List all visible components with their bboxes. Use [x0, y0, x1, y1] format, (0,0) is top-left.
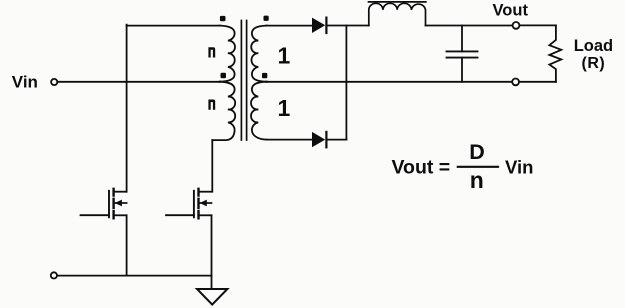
resistor Load (R) [549, 25, 561, 81]
transistor Q2 source line [200, 214, 212, 216]
transistor Q1 channel [112, 189, 114, 219]
capacitor C1 bottom lead [461, 58, 463, 82]
wire output bottom rail (secondary center tap to load) [266, 81, 556, 83]
terminal Vin- [51, 272, 57, 278]
polarity dot primary center [221, 73, 227, 78]
wire top rail left [127, 25, 221, 27]
ground symbol [197, 289, 227, 305]
polarity dot secondary top [264, 16, 269, 21]
transformer T1 secondary winding upper (1) [251, 26, 267, 82]
transistor Q1 drain bend [114, 191, 127, 193]
wire secondary top to D1 [266, 25, 312, 27]
svg-text:n: n [470, 167, 484, 193]
svg-text:1: 1 [278, 95, 291, 121]
polarity dot primary top [220, 16, 226, 21]
label n upper [208, 47, 215, 57]
label n lower [208, 100, 215, 110]
wire bottom rail left [58, 275, 212, 277]
svg-text:Load: Load [574, 37, 613, 55]
transistor Q2 drain bend [198, 191, 211, 193]
transistor Q2 body line [200, 202, 212, 204]
wire D2 cathode to junction [327, 139, 346, 141]
transformer T1 secondary winding lower (1) [251, 82, 267, 140]
transformer T1 primary winding upper (n) [220, 26, 235, 82]
wire left vertical (Q1 drain to top rail) [126, 25, 128, 192]
transistor Q1 gate lead [81, 214, 110, 216]
polarity dot secondary center [262, 73, 267, 78]
diode D1 [312, 18, 325, 33]
terminal Vout- [512, 79, 519, 86]
wire Vout terminal to load [520, 24, 556, 26]
transistor Q2 gate bar [193, 191, 195, 218]
capacitor C1 plates [447, 51, 478, 57]
wire Q1 source to bottom rail [126, 215, 128, 275]
transistor Q2 gate lead [166, 214, 194, 216]
svg-text:(R): (R) [582, 55, 606, 72]
wire inductor to Vout terminal [426, 25, 512, 27]
transformer T1 primary winding lower (n) [212, 82, 235, 140]
svg-text:Vout: Vout [493, 2, 529, 20]
transistor Q2 channel [197, 189, 199, 219]
wire cathode junction vertical [345, 26, 347, 140]
svg-text:Vin: Vin [12, 72, 38, 91]
transformer core [241, 21, 246, 141]
wire secondary bottom to D2 [266, 139, 312, 141]
svg-text:1: 1 [278, 42, 291, 68]
wire Q2 source to bottom rail and ground [211, 215, 213, 289]
terminal Vout+ [513, 22, 520, 29]
diode D2 [312, 132, 325, 147]
wire D1 cathode to inductor [327, 25, 368, 27]
svg-text:Vout =: Vout = [392, 157, 451, 179]
transistor Q1 body arrow [115, 200, 122, 207]
svg-text:D: D [469, 140, 485, 164]
wire Vin to primary center tap [58, 81, 220, 83]
formula fraction bar [458, 166, 498, 168]
transistor Q1 body line [115, 202, 127, 204]
svg-text:Vin: Vin [505, 157, 533, 178]
capacitor C1 top lead [461, 26, 463, 52]
inductor L1 [369, 3, 426, 25]
inductor core bar [369, 1, 426, 3]
wire lower primary to Q2 drain [211, 140, 213, 192]
transistor Q1 source line [115, 214, 127, 216]
transistor Q2 body arrow [200, 200, 207, 207]
transistor Q1 gate bar [108, 191, 110, 218]
terminal Vin+ [51, 79, 57, 85]
